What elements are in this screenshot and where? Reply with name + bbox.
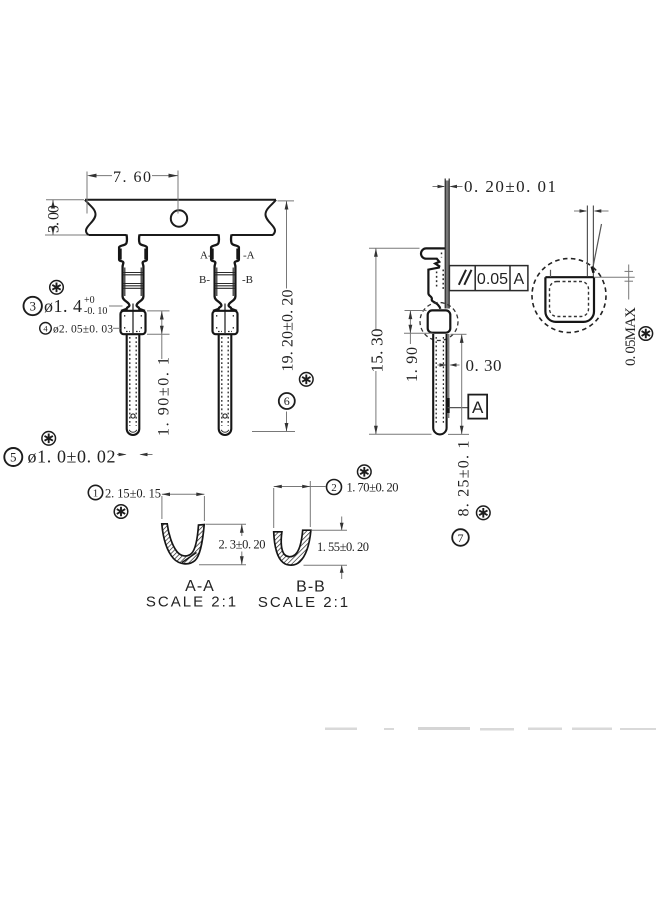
side view terminal profile [421, 248, 445, 308]
seam notch mark [592, 267, 594, 273]
svg-text:ø2. 05±0. 03: ø2. 05±0. 03 [53, 324, 113, 336]
star near note 3 [50, 281, 64, 295]
datum A frame [448, 395, 487, 419]
svg-text:3. 00: 3. 00 [46, 205, 63, 233]
leader for note 3 [109, 305, 123, 307]
balloon 2 [327, 480, 342, 495]
balloon 4 [40, 323, 52, 335]
dimension arrows for pin diameter 1.0 [117, 454, 153, 456]
svg-text:19. 20±0. 20: 19. 20±0. 20 [280, 290, 297, 372]
balloon 6 [279, 393, 295, 409]
side view hidden dotted lines [437, 253, 444, 290]
svg-text:A: A [513, 271, 524, 288]
balloon 3 [24, 297, 42, 315]
svg-text:1. 70±0. 20: 1. 70±0. 20 [347, 481, 399, 495]
svg-text:7: 7 [458, 531, 464, 545]
svg-text:5: 5 [10, 450, 17, 465]
star near balloon 1 [114, 505, 128, 519]
detail view seam lines [587, 206, 593, 277]
dimension 7.60 [87, 171, 178, 214]
svg-text:-0. 10: -0. 10 [84, 306, 107, 317]
svg-text:1. 90±0. 1: 1. 90±0. 1 [156, 357, 173, 436]
svg-text:0. 20±0. 01: 0. 20±0. 01 [464, 177, 556, 196]
svg-text:B-: B- [199, 274, 210, 286]
svg-text:0. 30: 0. 30 [466, 356, 502, 375]
carrier strip front view [85, 200, 276, 235]
side view crimp square [428, 310, 451, 332]
dashed circle around crimp square [420, 303, 458, 341]
dimension 2.15 lines [162, 494, 205, 521]
svg-text:A-: A- [200, 250, 212, 262]
pilot hole [171, 210, 187, 226]
svg-text:ø1. 4: ø1. 4 [44, 296, 82, 316]
svg-text:-B: -B [242, 274, 253, 286]
star near balloon 2 [358, 465, 372, 479]
balloon 7 [452, 529, 469, 546]
terminal 2 [211, 235, 239, 436]
balloon 1 [88, 485, 102, 499]
svg-text:SCALE 2:1: SCALE 2:1 [146, 594, 238, 611]
svg-text:6: 6 [284, 394, 290, 408]
section label A-A on terminal 2 [199, 250, 255, 287]
note 3 diameter 1.4 text [44, 295, 107, 317]
dimension 2.3 lines [199, 524, 246, 565]
svg-text:A-A: A-A [185, 578, 215, 595]
parallelism feature control frame [449, 266, 528, 291]
dimension 1.55 lines [304, 517, 348, 580]
leader for note 4 [113, 327, 120, 329]
svg-text:0. 05MAX: 0. 05MAX [623, 307, 639, 366]
detail view inner dashed square [550, 282, 589, 317]
svg-text:+0: +0 [84, 295, 95, 306]
terminal 1 [119, 235, 147, 436]
detail view crimp square outer [545, 277, 594, 322]
star near note 5 [42, 432, 56, 446]
faint watermark marks [325, 727, 656, 731]
dimension 15.30 [369, 248, 469, 434]
dimension 0.20 strip thickness [433, 186, 463, 188]
section B-B hatched U wall [274, 530, 311, 565]
dimension 1.70 lines [274, 481, 326, 528]
star near 0.05MAX [639, 327, 653, 341]
svg-text:SCALE 2:1: SCALE 2:1 [258, 594, 350, 611]
svg-text:B-B: B-B [296, 579, 326, 596]
svg-text:A: A [472, 398, 484, 417]
section A-A hatched U wall [162, 524, 204, 564]
svg-text:ø1. 0±0. 02: ø1. 0±0. 02 [28, 447, 116, 467]
side view pin [433, 334, 449, 434]
svg-text:2. 3±0. 20: 2. 3±0. 20 [219, 538, 266, 552]
svg-text:1. 90: 1. 90 [404, 347, 421, 382]
svg-text:2: 2 [331, 482, 337, 494]
svg-text:-A: -A [243, 250, 255, 262]
detail view dashed circle [532, 259, 606, 333]
dimension 3.00 [45, 200, 87, 235]
dimension 0.30 pin thickness [438, 364, 460, 366]
star near balloon 6 [300, 373, 314, 387]
star near balloon 7 [477, 506, 491, 520]
svg-text:1. 55±0. 20: 1. 55±0. 20 [317, 540, 369, 554]
dimension 19.20 with balloon 6 [252, 201, 295, 432]
dimension 1.90 side view [404, 311, 433, 345]
side view carrier strip bar [445, 179, 449, 309]
balloon 5 [4, 448, 22, 466]
seam gap dimension arrows [574, 210, 609, 212]
svg-text:0.05: 0.05 [477, 271, 508, 288]
svg-text:1: 1 [93, 487, 99, 499]
dimension 0.05MAX [625, 265, 634, 300]
svg-text:8. 25±0. 1: 8. 25±0. 1 [456, 441, 473, 517]
dimension 1.90 front view [147, 311, 170, 359]
svg-text:15. 30: 15. 30 [368, 329, 387, 373]
extension line from square top edge [594, 276, 635, 278]
svg-text:2. 15±0. 15: 2. 15±0. 15 [105, 487, 161, 501]
dimension 8.25 with balloon 7 [451, 334, 467, 434]
seam leader line [593, 224, 602, 270]
top-left tick of detail square [550, 270, 552, 277]
svg-text:3: 3 [29, 299, 36, 314]
